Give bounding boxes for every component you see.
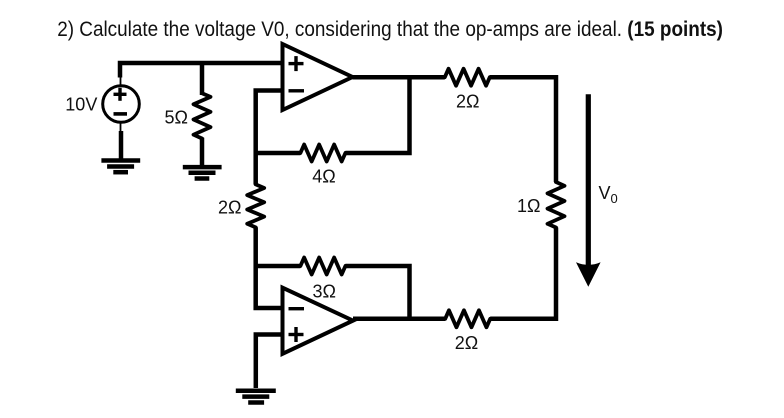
svg-text:5Ω: 5Ω <box>165 108 188 128</box>
wire U1 output <box>353 75 445 80</box>
wire 3ohm left <box>256 264 301 269</box>
VS minus sign <box>114 112 128 116</box>
U2 plus input symbol <box>289 327 304 342</box>
resistor R 5ohm <box>194 93 211 138</box>
wire source top pin <box>120 76 122 87</box>
svg-text:10V: 10V <box>65 95 97 115</box>
svg-text:V0: V0 <box>599 183 618 206</box>
svg-text:2Ω: 2Ω <box>455 333 478 353</box>
wire feedback U2 <box>345 266 409 319</box>
wire 4ohm left <box>256 151 301 156</box>
wire feedback U1 <box>345 77 409 153</box>
svg-text:1Ω: 1Ω <box>517 196 540 216</box>
ground G1 <box>101 161 140 173</box>
resistor R 3ohm <box>300 258 345 275</box>
wire U2 non-inverting input to ground <box>256 335 283 389</box>
resistor R 2ohm bottom <box>445 310 490 327</box>
VS plus sign <box>114 88 127 101</box>
voltage source VS 10V <box>103 86 140 123</box>
U2 minus input symbol <box>289 307 305 310</box>
resistor R 2ohm top <box>445 69 490 86</box>
wire 5ohm bottom <box>200 138 205 167</box>
resistor R 1ohm <box>548 182 565 228</box>
wire top rail <box>120 63 283 78</box>
svg-text:2Ω: 2Ω <box>456 91 479 111</box>
wire mid rail <box>256 227 283 308</box>
wire 5ohm top <box>200 63 205 95</box>
svg-text:4Ω: 4Ω <box>312 167 335 187</box>
ground G2 <box>183 167 222 178</box>
wire source bottom pin <box>120 122 122 132</box>
wire 2ohm bottom to right rail <box>490 317 556 322</box>
wire 2ohm top to right rail <box>490 75 556 80</box>
wire right rail top <box>554 75 559 182</box>
wire U1 inverting input <box>256 91 283 185</box>
U1 minus input symbol <box>289 89 305 92</box>
svg-text:3Ω: 3Ω <box>313 281 336 301</box>
resistor R 2ohm vertical <box>247 184 264 227</box>
wire U2 output <box>353 317 445 322</box>
wire right rail bottom <box>554 228 559 322</box>
U1 plus input symbol <box>289 56 304 71</box>
op-amp U1 <box>283 44 353 110</box>
resistor R 4ohm <box>300 145 345 162</box>
ground G3 <box>236 391 276 403</box>
svg-text:2) Calculate the voltage V0, c: 2) Calculate the voltage V0, considering… <box>57 18 723 41</box>
svg-text:2Ω: 2Ω <box>218 197 241 217</box>
V0 arrow <box>576 94 601 286</box>
op-amp U2 <box>283 288 354 354</box>
wire source bottom <box>119 131 124 160</box>
